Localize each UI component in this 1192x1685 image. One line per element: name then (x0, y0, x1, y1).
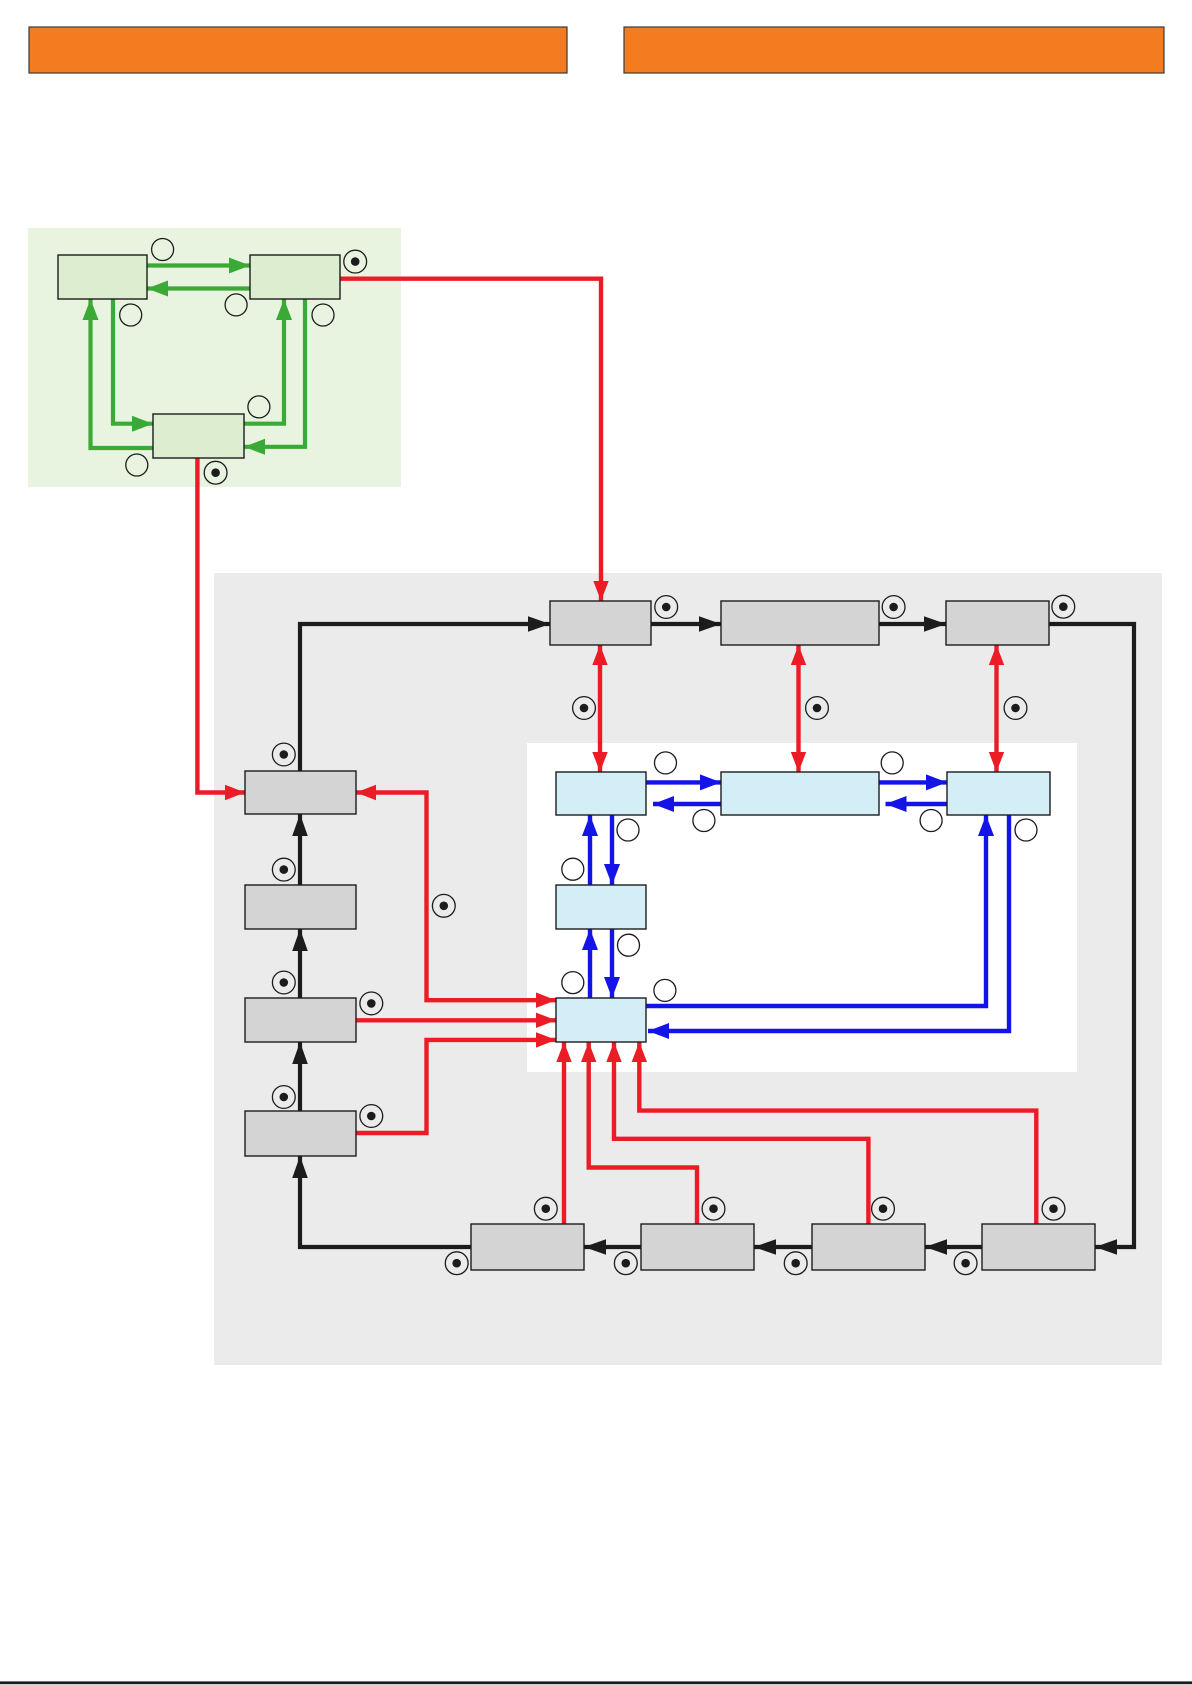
state box G1 (58, 255, 147, 299)
state box R3 (812, 1224, 925, 1270)
bullet marker d17 (702, 1197, 725, 1220)
wire black box B to box C (879, 622, 946, 626)
state box A (550, 601, 651, 645)
bullet marker d18 (872, 1197, 895, 1220)
wire green G3 to G2 (244, 299, 284, 424)
state box L2 (245, 885, 356, 929)
wire blue BB to M (588, 929, 592, 998)
state box BB (556, 998, 646, 1042)
wire blue BB to T3 (646, 815, 986, 1006)
wire green G1 to G3 (113, 299, 153, 424)
wire blue T3 to T2 (886, 802, 948, 806)
state box T3 (947, 772, 1050, 815)
orange header bar right (624, 27, 1164, 73)
bullet marker d14 (360, 1105, 383, 1128)
bullet marker d22 (784, 1252, 807, 1275)
wire black L4 to L3 (298, 1042, 302, 1111)
bullet marker d1 (344, 250, 367, 273)
wire red R1 to BB (562, 1042, 566, 1224)
bullet marker d3 (655, 596, 678, 619)
wire black R1 to L4 (300, 1156, 471, 1247)
wire red R3 to BB (614, 1042, 868, 1224)
callout circle c2 (120, 304, 142, 326)
wire black R3 to R2 (754, 1245, 812, 1249)
wire black R4 to R3 (925, 1245, 982, 1249)
callout circle c7 (655, 752, 677, 774)
wire green G2 to G3 (244, 299, 305, 447)
wire green G1 to G2 (147, 263, 250, 267)
callout circle c9 (881, 752, 903, 774)
bullet marker d7 (806, 697, 829, 720)
state box T2 (721, 772, 879, 815)
wire black L2 to L1 (298, 814, 302, 885)
green panel background (28, 228, 401, 487)
white inner panel (527, 743, 1077, 1072)
wire blue T2 to T3 (879, 780, 947, 784)
wire black box A to box B (651, 622, 721, 626)
bullet marker d12 (272, 1086, 295, 1109)
state box L4 (245, 1111, 356, 1156)
bullet marker d9 (272, 743, 295, 766)
state box B (721, 601, 879, 645)
state box L3 (245, 998, 356, 1042)
callout circle c8 (693, 810, 715, 832)
callout circle c6 (126, 454, 148, 476)
wire black L3 to L2 (298, 929, 302, 998)
state box M (556, 885, 646, 929)
state box R4 (982, 1224, 1095, 1270)
callout circle c11 (617, 819, 639, 841)
callout circle c3 (225, 294, 247, 316)
wire red R4 to BB (639, 1042, 1036, 1224)
callout circle c5 (248, 396, 270, 418)
state box C (946, 601, 1049, 645)
bullet marker d8 (1004, 697, 1027, 720)
bullet marker d6 (573, 697, 596, 720)
bullet marker d15 (432, 894, 455, 917)
callout circle c15 (562, 972, 584, 994)
wire red L1 to BB bidirectional (356, 793, 556, 1001)
state box L1 (245, 771, 356, 814)
callout circle c10 (920, 810, 942, 832)
bullet marker d5 (1052, 595, 1075, 618)
callout circle c13 (562, 858, 584, 880)
bullet marker d13 (360, 992, 383, 1015)
callout circle c1 (152, 239, 174, 261)
wire green G3 to G1 (91, 299, 154, 448)
gray panel background (214, 573, 1162, 1365)
bullet marker d4 (882, 596, 905, 619)
bullet marker d2 (204, 461, 227, 484)
bottom rule (0, 1681, 1192, 1684)
wire red L4 to BB (356, 1040, 556, 1133)
callout circle c4 (312, 304, 334, 326)
wire red G3 to box L1 (197, 458, 245, 793)
state box G2 (250, 255, 340, 299)
wire red R2 to BB (589, 1042, 697, 1224)
bullet marker d11 (272, 971, 295, 994)
wire red L3 to BB (356, 1018, 556, 1022)
wire black box C to R4 (1049, 624, 1134, 1247)
bullet marker d20 (445, 1252, 468, 1275)
wire red box C to T3 bidirectional (994, 645, 998, 772)
wire red box B to T2 bidirectional (796, 645, 800, 772)
wire blue T2 to T1 (653, 802, 721, 806)
wire red G2 to box A (340, 279, 601, 601)
bullet marker d21 (614, 1252, 637, 1275)
wire blue T3 to BB (648, 815, 1009, 1031)
state box R1 (471, 1224, 584, 1270)
state box R2 (641, 1224, 754, 1270)
wire blue M to T1 (588, 815, 592, 885)
wire black L1 to box A (300, 624, 550, 771)
bullet marker d23 (954, 1252, 977, 1275)
state box G3 (153, 414, 244, 458)
wire blue T1 to M (610, 815, 614, 885)
orange header bar left (29, 27, 567, 73)
callout circle c12 (1015, 819, 1037, 841)
bullet marker d16 (534, 1197, 557, 1220)
wire blue M to BB (610, 929, 614, 998)
callout circle c16 (654, 979, 676, 1001)
wire blue T1 to T2 (646, 780, 721, 784)
state box T1 (556, 772, 646, 815)
wire green G2 to G1 (147, 286, 340, 290)
wire red box A to T1 bidirectional (598, 645, 602, 772)
bullet marker d19 (1042, 1197, 1065, 1220)
callout circle c14 (618, 934, 640, 956)
wire black R2 to R1 (584, 1245, 641, 1249)
bullet marker d10 (272, 858, 295, 881)
